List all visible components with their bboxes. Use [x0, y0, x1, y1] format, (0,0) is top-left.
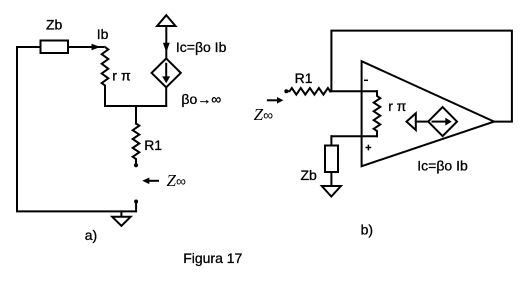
svg-text:βo→∞: βo→∞ [181, 91, 221, 107]
svg-text:r π: r π [388, 98, 406, 114]
svg-text:Ic=βo Ib: Ic=βo Ib [176, 39, 227, 55]
svg-text:Ic=βo Ib: Ic=βo Ib [417, 158, 468, 174]
svg-text:Ib: Ib [97, 26, 109, 42]
svg-text:Zb: Zb [301, 167, 318, 183]
svg-text:R1: R1 [144, 137, 162, 153]
svg-text:R1: R1 [295, 70, 313, 86]
svg-text:r π: r π [112, 67, 131, 83]
svg-text:a): a) [85, 227, 97, 243]
svg-text:b): b) [361, 222, 373, 238]
svg-text:Zb: Zb [46, 17, 63, 33]
svg-text:Z∞: Z∞ [167, 171, 186, 190]
svg-text:Figura 17: Figura 17 [183, 250, 242, 266]
svg-text:Z∞: Z∞ [254, 105, 273, 124]
